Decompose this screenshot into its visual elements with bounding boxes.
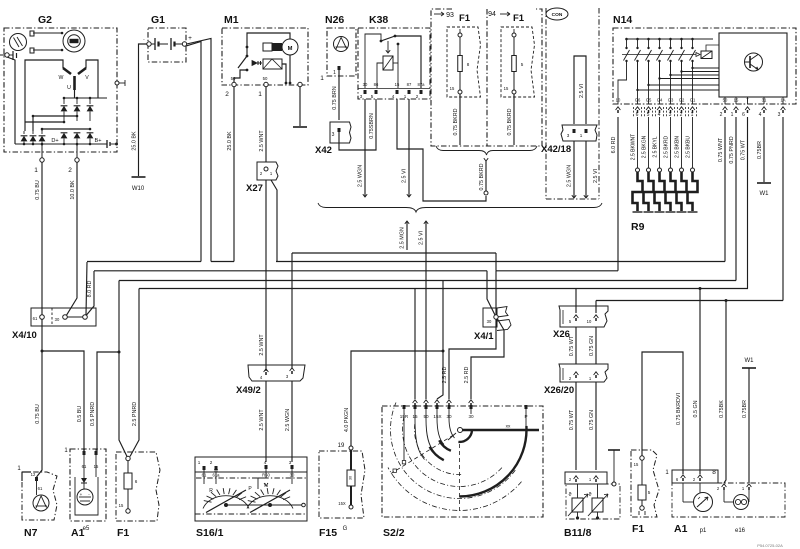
fuse F1 right inner dashed box bbox=[501, 27, 535, 97]
wire N14 glow outputs to R9 bbox=[637, 117, 639, 168]
wire N14 terminal 15 0.75 PNRD bbox=[735, 117, 737, 281]
alternator G2 box bbox=[4, 28, 117, 152]
svg-text:S16/1: S16/1 bbox=[196, 527, 224, 539]
svg-text:2.5 BKGN: 2.5 BKGN bbox=[641, 135, 647, 158]
svg-text:0.75 BKRD: 0.75 BKRD bbox=[507, 108, 513, 135]
svg-text:CON: CON bbox=[552, 12, 563, 18]
wire N26 to X42 0.75 BRN bbox=[338, 70, 340, 120]
fuse F15 box bbox=[319, 451, 365, 518]
bus X4/1 to N14 supply bbox=[496, 270, 618, 272]
svg-text:12: 12 bbox=[31, 472, 36, 477]
wire segment battery to starter bus bbox=[211, 261, 234, 263]
svg-text:2.5 WNT: 2.5 WNT bbox=[259, 409, 265, 431]
N14 output verticals to pins bbox=[637, 61, 639, 104]
wire W1 to A1 pin1 0.75 BR bbox=[748, 368, 750, 483]
M1 internal wiring top bbox=[247, 33, 290, 47]
wire A1 pin2 0.5 GN from bus bbox=[699, 289, 701, 475]
svg-text:15: 15 bbox=[504, 86, 509, 91]
svg-text:2.5 WNT: 2.5 WNT bbox=[259, 334, 265, 356]
svg-text:1: 1 bbox=[404, 94, 407, 99]
wire drop to S2/2 terminal 15X bbox=[437, 351, 443, 399]
svg-text:86: 86 bbox=[374, 82, 379, 87]
svg-text:M1: M1 bbox=[224, 14, 239, 26]
S2/2 pin 15 bbox=[413, 400, 418, 403]
svg-text:G2: G2 bbox=[38, 14, 52, 26]
wire X26/20 to B11/8 0.75 GN bbox=[595, 382, 597, 470]
N14 contacts bbox=[625, 38, 628, 41]
N14 thermo element bbox=[701, 51, 712, 59]
wire K38 pin 15 to fuse node bbox=[397, 99, 486, 201]
svg-text:4.0 PKGN: 4.0 PKGN bbox=[344, 408, 350, 432]
svg-text:2.5 WGN: 2.5 WGN bbox=[358, 165, 364, 187]
fuse F1 bottom left box bbox=[116, 452, 160, 521]
A1 pins 61 15 bbox=[83, 451, 86, 455]
svg-text:S2/2: S2/2 bbox=[383, 527, 405, 539]
svg-text:50: 50 bbox=[263, 76, 268, 81]
S2/2 pin 50 bbox=[424, 400, 429, 403]
connector X42/18 box bbox=[561, 125, 597, 141]
fuse F1 left inner dashed box bbox=[447, 27, 481, 97]
svg-text:G1: G1 bbox=[151, 14, 165, 26]
separator dash bottom of CON column bbox=[546, 198, 599, 200]
A1 inner outline bbox=[75, 477, 98, 515]
bus terminal 30 upper bbox=[292, 252, 496, 254]
svg-text:F1: F1 bbox=[513, 13, 525, 24]
wire X42/18 pin3 down 2.5 WGN bbox=[573, 141, 575, 198]
connector X49/2 box bbox=[248, 365, 305, 381]
M1 ground pin bbox=[298, 82, 302, 86]
glow plugs R9 bbox=[636, 168, 640, 172]
svg-text:6: 6 bbox=[742, 112, 745, 118]
svg-text:X4/10: X4/10 bbox=[12, 330, 37, 341]
svg-text:ϑ: ϑ bbox=[588, 492, 591, 498]
svg-text:P54.0725-02A: P54.0725-02A bbox=[757, 543, 783, 548]
A1 right pins bbox=[681, 475, 686, 478]
M1 field symbol rect bbox=[263, 43, 272, 51]
G2 suppression capacitor bbox=[106, 140, 108, 148]
svg-text:2.5 BKYL: 2.5 BKYL bbox=[652, 136, 658, 157]
S2/2 dashed diagonal bbox=[391, 435, 454, 474]
svg-text:61: 61 bbox=[38, 486, 43, 491]
S2/2 pin P bbox=[525, 405, 528, 409]
instrument cluster A1 box right bbox=[672, 470, 718, 483]
wire 8.0 RD corner into X4/1 bbox=[487, 271, 495, 315]
svg-text:1: 1 bbox=[333, 70, 336, 76]
svg-text:M: M bbox=[288, 46, 293, 52]
ground W10 bbox=[132, 176, 146, 178]
svg-text:F1: F1 bbox=[632, 523, 644, 535]
svg-text:2: 2 bbox=[720, 112, 723, 118]
S2/2 pin 30 bbox=[447, 400, 452, 403]
svg-text:F15: F15 bbox=[319, 527, 337, 539]
G2 pin 1 bbox=[40, 158, 44, 162]
bus 8.0 RD battery feed bbox=[94, 270, 487, 272]
svg-text:15: 15 bbox=[450, 86, 455, 91]
M1 pin 1 terminal 50 bbox=[264, 82, 268, 86]
svg-text:0.75 BKRD: 0.75 BKRD bbox=[453, 108, 459, 135]
connector X4/10 box bbox=[31, 308, 96, 326]
wire X26 to X26/20 0.75 WT bbox=[575, 327, 577, 364]
wire N14 terminal 50 0.75 WNT bbox=[724, 117, 726, 262]
svg-text:94: 94 bbox=[488, 11, 496, 18]
svg-text:9: 9 bbox=[83, 448, 85, 452]
wire X42/18 pin1 down 2.5 VI bbox=[585, 141, 587, 198]
G1 cell symbols bbox=[147, 42, 151, 46]
svg-text:W1: W1 bbox=[760, 191, 770, 197]
svg-text:2.5 VI: 2.5 VI bbox=[579, 84, 585, 98]
svg-text:F1: F1 bbox=[459, 13, 471, 24]
G2 exciter diodes D+ bbox=[23, 131, 25, 134]
svg-text:2.5 PNRD: 2.5 PNRD bbox=[132, 402, 138, 426]
svg-text:0.5 BU: 0.5 BU bbox=[77, 406, 83, 423]
svg-text:G4: G4 bbox=[657, 98, 663, 103]
G2 phase wire W bbox=[25, 60, 63, 122]
svg-text:V: V bbox=[85, 75, 89, 81]
svg-text:e5: e5 bbox=[83, 526, 90, 532]
branch to A1 pin 61 0.5 BU bbox=[42, 351, 84, 455]
svg-text:0.75 GN: 0.75 GN bbox=[589, 336, 595, 356]
svg-text:0.75 BKRDVI: 0.75 BKRDVI bbox=[676, 393, 682, 425]
svg-text:0.75 WT: 0.75 WT bbox=[569, 409, 575, 430]
fuse F1 right element bbox=[512, 33, 516, 37]
M1 ground symbol bbox=[293, 126, 307, 128]
svg-text:10.0 BK: 10.0 BK bbox=[70, 180, 76, 200]
svg-text:30: 30 bbox=[468, 414, 474, 419]
A1 oil pressure gauge p1 bbox=[694, 493, 713, 512]
S2/2 dashed detent arcs bbox=[414, 423, 461, 474]
connector X26/20 box bbox=[559, 364, 608, 382]
svg-text:15: 15 bbox=[119, 503, 124, 508]
brace output stub 2.5 MGN bbox=[406, 221, 408, 250]
A1 right internals bbox=[682, 483, 684, 502]
N14 pin 10 branch bbox=[618, 61, 627, 104]
K38 switch contact bbox=[380, 40, 383, 43]
svg-text:G1: G1 bbox=[690, 98, 696, 103]
wire fuse left down 0.75 BKRD bbox=[459, 94, 461, 145]
starter M1 box bbox=[222, 28, 308, 85]
wire N14 terminal T 0.75 WT bbox=[747, 117, 749, 289]
svg-text:1: 1 bbox=[198, 460, 201, 465]
svg-text:B+: B+ bbox=[95, 138, 102, 144]
svg-text:K38: K38 bbox=[369, 14, 388, 26]
wire X4/1 up to N14 supply bus bbox=[495, 271, 497, 315]
divider 93/94 bbox=[486, 9, 488, 146]
svg-text:2.5 MGN: 2.5 MGN bbox=[400, 227, 406, 249]
wire X42 to K38 pin 86 0.75 SBRN bbox=[339, 99, 376, 150]
M1 pin 2 terminal 50 bbox=[232, 82, 236, 86]
svg-text:2.5 VI: 2.5 VI bbox=[419, 231, 425, 245]
svg-text:31: 31 bbox=[762, 98, 767, 103]
S2/2 pin 15X bbox=[435, 400, 440, 403]
wire X4/10 8.0 RD riser bbox=[87, 271, 95, 315]
A1 fuel gauge symbol bbox=[77, 489, 93, 505]
svg-text:B11/8: B11/8 bbox=[564, 527, 592, 539]
A1 diode symbol bbox=[83, 472, 85, 478]
N14 output wires to electronics bbox=[693, 61, 720, 68]
S2/2 dashed vertical bbox=[459, 444, 461, 513]
svg-text:0.75 BKRD: 0.75 BKRD bbox=[479, 163, 485, 190]
svg-text:X42/18: X42/18 bbox=[541, 144, 571, 155]
connector CON oval bbox=[546, 8, 568, 20]
svg-text:N14: N14 bbox=[613, 14, 632, 26]
K38 coil connections bbox=[377, 63, 383, 66]
label arrow 93 bbox=[434, 13, 444, 15]
fuse box F1 pair outer box bbox=[431, 9, 542, 146]
N14 pin 10 arrow bbox=[616, 107, 621, 110]
svg-text:3: 3 bbox=[360, 94, 363, 99]
svg-text:0.75BR: 0.75BR bbox=[757, 141, 763, 159]
svg-text:1: 1 bbox=[320, 75, 324, 82]
wire fuse right down 0.75 BKRD bbox=[513, 94, 515, 145]
svg-text:15X: 15X bbox=[338, 501, 346, 506]
svg-text:1A: 1A bbox=[780, 98, 785, 103]
wire terminal30 bus drop at X4/1 bbox=[495, 253, 497, 271]
G2 regulator circle bbox=[10, 34, 27, 51]
bus battery to X4/10 segment bbox=[87, 261, 201, 263]
svg-text:0.75 BRN: 0.75 BRN bbox=[332, 86, 338, 109]
wire A1 pin 0.75 BK from N14 1A bus bbox=[724, 301, 726, 484]
wire terminal 15 drop to F15 bbox=[351, 281, 443, 447]
F1 bottom left element bbox=[126, 456, 130, 460]
svg-text:G6: G6 bbox=[635, 98, 641, 103]
G2 phase wire U bbox=[74, 90, 76, 98]
svg-text:X27: X27 bbox=[246, 183, 263, 194]
wire N14 terminal 1A bbox=[782, 117, 784, 301]
svg-text:G5: G5 bbox=[646, 98, 652, 103]
N7 symbol circle bbox=[33, 495, 49, 511]
svg-text:2.5 WGN: 2.5 WGN bbox=[285, 409, 291, 431]
wire N14 main supply 6.0 RD bbox=[617, 117, 619, 271]
svg-text:2.5 VI: 2.5 VI bbox=[402, 169, 408, 183]
wire M1 pin2 to battery 25.0 BK bbox=[233, 87, 235, 262]
svg-text:8: 8 bbox=[95, 448, 97, 452]
svg-text:2.5 WNT: 2.5 WNT bbox=[259, 130, 265, 152]
S2/2 pin 15R bbox=[403, 405, 406, 409]
G2 diode bottom rail bbox=[15, 143, 107, 145]
svg-text:X4/1: X4/1 bbox=[474, 331, 494, 342]
wire N14 terminal 31 0.75 BR to ground W1 bbox=[763, 117, 765, 182]
wire X4/10 pin30 up to bus bbox=[86, 262, 87, 315]
wire terminal 15B drop to F1 2.5 PNRD bbox=[130, 289, 139, 457]
separator dash line left of CON column bbox=[545, 8, 547, 199]
control unit N7 box bbox=[22, 472, 57, 520]
G2 stator wye winding bbox=[63, 68, 71, 74]
svg-text:0.75 WT: 0.75 WT bbox=[741, 139, 747, 160]
wire X26 to X26/20 0.75 GN bbox=[595, 327, 597, 364]
svg-text:ϑ: ϑ bbox=[568, 492, 571, 498]
connector X42 bbox=[330, 122, 351, 143]
G2 rotor circle bbox=[63, 30, 85, 52]
svg-text:5: 5 bbox=[648, 490, 651, 495]
svg-text:8: 8 bbox=[467, 62, 470, 67]
separator dash line right of CON column bbox=[598, 8, 600, 199]
svg-text:25.0 BK: 25.0 BK bbox=[132, 131, 138, 151]
svg-text:3: 3 bbox=[289, 460, 292, 465]
svg-text:2: 2 bbox=[68, 167, 72, 174]
wire terminal 15 drop to F1 and A1 bbox=[119, 281, 127, 457]
wire terminal 30 drop to X49/2 pin3 bbox=[291, 253, 293, 368]
N14 bottom connector row bbox=[613, 103, 796, 105]
N14 transistor symbol bbox=[745, 53, 763, 71]
svg-text:2.5 BKBU: 2.5 BKBU bbox=[685, 136, 691, 158]
svg-text:0.75 BU: 0.75 BU bbox=[35, 404, 41, 424]
svg-text:0.75BK: 0.75BK bbox=[719, 400, 725, 418]
svg-text:A1: A1 bbox=[674, 523, 688, 535]
S2/2 rotor center bbox=[458, 428, 463, 433]
ground W1 top bbox=[757, 182, 771, 184]
glow relay N14 box bbox=[613, 28, 796, 104]
relay K38 box bbox=[358, 28, 430, 99]
svg-text:4: 4 bbox=[759, 112, 762, 118]
svg-text:0.75 BU: 0.75 BU bbox=[35, 180, 41, 200]
svg-text:19: 19 bbox=[338, 443, 345, 449]
svg-text:N26: N26 bbox=[325, 14, 344, 26]
svg-text:X42: X42 bbox=[315, 145, 332, 156]
svg-text:0.75 WNT: 0.75 WNT bbox=[718, 137, 724, 162]
N7 pin wire bbox=[36, 481, 38, 495]
svg-text:2.5 VI: 2.5 VI bbox=[593, 169, 599, 183]
svg-text:F1: F1 bbox=[117, 527, 129, 539]
N26 pin 1 bbox=[338, 66, 341, 70]
svg-text:X49/2: X49/2 bbox=[236, 385, 261, 396]
S2/2 rotor arm thick bbox=[463, 429, 540, 432]
svg-text:xx: xx bbox=[506, 425, 511, 430]
S2/2 thick arc P bbox=[460, 426, 527, 497]
wire X49/2 pin3 to S16/1 2.5 WGN bbox=[291, 381, 293, 462]
svg-text:W1: W1 bbox=[745, 358, 755, 364]
svg-text:T: T bbox=[746, 98, 749, 103]
S2/2 contact feed arcs bbox=[403, 407, 405, 461]
svg-text:X26: X26 bbox=[553, 329, 570, 340]
svg-text:G3: G3 bbox=[668, 98, 674, 103]
svg-text:W10: W10 bbox=[132, 186, 145, 192]
svg-text:30: 30 bbox=[55, 317, 60, 322]
svg-text:8.0 RD: 8.0 RD bbox=[87, 281, 93, 298]
wire X26/20 to B11/8 0.75 WT bbox=[575, 382, 577, 470]
svg-text:4: 4 bbox=[264, 460, 267, 465]
wire K38 pin 87 stub 2.5 VI bbox=[408, 99, 410, 197]
wire M1 pin1 terminal 50 2.5 WNT bbox=[265, 87, 267, 162]
svg-text:30: 30 bbox=[363, 82, 368, 87]
S2/2 thick arc 30 bbox=[458, 430, 472, 442]
M1 solenoid rect bbox=[263, 59, 282, 69]
svg-text:D+: D+ bbox=[51, 138, 58, 144]
S16/1 pointer rail bbox=[226, 504, 302, 506]
svg-text:0.75BR: 0.75BR bbox=[742, 400, 748, 418]
svg-text:3: 3 bbox=[332, 132, 335, 138]
svg-text:30: 30 bbox=[349, 476, 353, 480]
wire battery positive feed B to starter bbox=[187, 39, 211, 262]
M1 motor circle bbox=[282, 39, 298, 55]
svg-text:0.75 GN: 0.75 GN bbox=[589, 410, 595, 430]
connector X26 box bbox=[559, 306, 608, 327]
svg-text:6: 6 bbox=[135, 479, 138, 484]
svg-text:2.5 BKWNT: 2.5 BKWNT bbox=[630, 134, 636, 160]
svg-text:50: 50 bbox=[723, 98, 728, 103]
N14 actuator line bbox=[622, 54, 696, 56]
wire feed to F1 and A1 pin6 0.75 BKRDVI bbox=[642, 352, 683, 474]
branch to A1 pin 15 0.5 PNRD bbox=[97, 352, 119, 455]
svg-text:4: 4 bbox=[392, 94, 395, 99]
connector X4/1 box bbox=[483, 308, 497, 327]
G2 brush contact wires bbox=[33, 32, 62, 34]
svg-text:+: + bbox=[80, 492, 83, 497]
B11/8 ground stub bbox=[608, 449, 620, 451]
S16/1 pins bbox=[203, 466, 206, 470]
connector X27 box bbox=[257, 162, 278, 180]
svg-text:61: 61 bbox=[33, 316, 38, 321]
G2 phase wire V bbox=[86, 60, 98, 98]
G2 phase cross rails bbox=[25, 121, 64, 123]
svg-text:15X: 15X bbox=[433, 414, 441, 419]
S2/2 thick contact arc 50 bbox=[430, 447, 444, 460]
svg-text:R9: R9 bbox=[631, 221, 645, 233]
X4/10 pin 61 bbox=[40, 315, 45, 320]
bus sensor to N14 1A bbox=[596, 300, 783, 302]
wire K38 pin 30 stub 2.5 WGN bbox=[364, 99, 366, 197]
svg-text:87a: 87a bbox=[418, 82, 426, 87]
control unit N26 box bbox=[327, 28, 356, 76]
S16/1 internal drop wires bbox=[291, 469, 293, 484]
A1 15 wire inside bbox=[95, 472, 97, 477]
S2/2 pin 30b bbox=[469, 400, 474, 403]
instrument cluster A1 box left bbox=[70, 449, 106, 521]
wire G2 pin1 0.75 BU down bbox=[41, 162, 43, 315]
S2/2 thick contact arc 15X bbox=[439, 440, 451, 451]
svg-text:3: 3 bbox=[778, 112, 781, 118]
N26 fan symbol circle bbox=[334, 37, 349, 52]
wire battery positive feed A 8.0 RD bbox=[187, 42, 201, 262]
svg-text:G2: G2 bbox=[679, 98, 685, 103]
wire X26 pin5 to bus bbox=[575, 289, 577, 314]
svg-text:p1: p1 bbox=[700, 528, 707, 534]
svg-text:2: 2 bbox=[210, 460, 213, 465]
svg-text:1: 1 bbox=[258, 91, 262, 98]
svg-text:30: 30 bbox=[487, 319, 492, 324]
big brace collector bbox=[318, 203, 602, 212]
wire X4/1 to S2/2 terminal 30b 2.5 RD bbox=[471, 319, 504, 399]
F15 element bbox=[349, 446, 353, 450]
wire X26 pin10 to bus bbox=[595, 301, 597, 314]
svg-text:0.75 WT: 0.75 WT bbox=[569, 335, 575, 356]
svg-text:25.0 BK: 25.0 BK bbox=[227, 131, 233, 151]
G2 right border pin bbox=[115, 81, 119, 85]
wire G2 pin2 10.0 BK into X4/10 bbox=[67, 162, 78, 315]
svg-text:10: 10 bbox=[616, 98, 621, 103]
fuse F1 left element bbox=[458, 33, 462, 37]
G2 capacitor symbol bbox=[12, 51, 14, 60]
brace output wire 2.5 VI to S2/2 terminal 50 bbox=[425, 221, 427, 399]
svg-text:0.75 PNRD: 0.75 PNRD bbox=[729, 136, 735, 163]
svg-text:2.5 WGN: 2.5 WGN bbox=[567, 165, 573, 187]
battery G1 box bbox=[148, 28, 186, 62]
M1 switch contact bbox=[246, 55, 249, 58]
N14 electronics pins to bottom bbox=[724, 97, 726, 104]
G2 main diodes B+ bbox=[63, 98, 65, 104]
svg-text:0.75SBRN: 0.75SBRN bbox=[369, 113, 375, 139]
A1 lamp e16 bbox=[734, 495, 749, 510]
svg-text:87: 87 bbox=[407, 82, 412, 87]
svg-text:2: 2 bbox=[416, 94, 419, 99]
svg-text:1: 1 bbox=[34, 167, 38, 174]
F1 bottom right element bbox=[640, 456, 644, 460]
wire terminal 15B drop to S2/2 terminal 15 bbox=[414, 289, 416, 400]
svg-text:5: 5 bbox=[521, 62, 524, 67]
fuse F1 bottom right box bbox=[631, 450, 659, 517]
K38 coil bbox=[387, 41, 389, 52]
svg-text:N7: N7 bbox=[24, 527, 38, 539]
bus terminal 15 A bbox=[119, 280, 736, 282]
